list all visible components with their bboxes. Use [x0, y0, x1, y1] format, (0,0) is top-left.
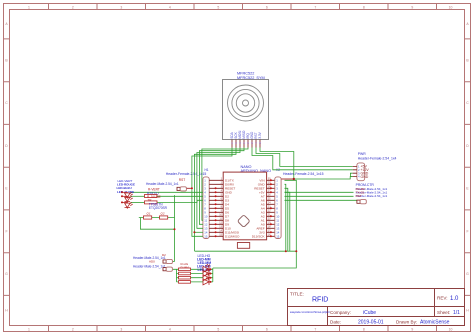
svg-text:8: 8: [363, 327, 365, 331]
title block: [288, 289, 465, 326]
svg-text:6: 6: [266, 327, 268, 331]
svg-text:9: 9: [411, 5, 413, 9]
svg-text:8: 8: [363, 5, 365, 9]
wire RST net: [186, 187, 192, 189]
wire U1 pin1 to H1 row15: [192, 148, 232, 237]
resistor labels bottom: [181, 262, 190, 269]
led labels bottom: [197, 254, 211, 272]
svg-text:1/1: 1/1: [453, 310, 460, 316]
svg-text:1: 1: [28, 5, 30, 9]
led D5: [203, 268, 210, 276]
wire AD0 header to resistor bus: [173, 269, 179, 282]
svg-text:G: G: [5, 272, 8, 276]
wire H2 row3 branch to ground bus: [285, 188, 288, 251]
junction dot loop: [174, 228, 176, 230]
wire ground bus bottom: [195, 250, 296, 252]
svg-text:7: 7: [314, 327, 316, 331]
resistor R3: [179, 268, 191, 271]
wire U1 pin5 to H1 row11: [202, 148, 248, 221]
wire U1 pin8 down to gnd net: [260, 148, 294, 180]
svg-text:ETQ2070SR: ETQ2070SR: [149, 206, 168, 210]
svg-text:10: 10: [449, 327, 453, 331]
junction dots right: [285, 250, 287, 252]
resistor R6: [179, 281, 191, 284]
svg-text:15: 15: [276, 234, 280, 238]
header P3 AD0 Header-Male-2.54_1x1: [133, 264, 172, 271]
wire H2 row1 branch to led bus: [213, 180, 297, 268]
svg-text:7: 7: [314, 5, 316, 9]
wire U1 pin7 to PWR pin1: [256, 148, 353, 167]
svg-text:REV:: REV:: [437, 296, 448, 301]
wire led cathode bus: [209, 268, 213, 282]
led group labels left: [117, 179, 136, 194]
U2 right pin stubs: [267, 180, 275, 236]
svg-text:D12/MISO: D12/MISO: [225, 235, 240, 239]
svg-text:iCube: iCube: [363, 310, 376, 316]
resistor R1 R-VERT: [145, 187, 161, 199]
svg-text:PWR: PWR: [358, 152, 366, 156]
header H2 Header-Female-2.54_1x15: [270, 168, 324, 239]
mcu U2 ARDUINO_NANO: [215, 165, 275, 248]
svg-text:D13/SCK: D13/SCK: [252, 235, 266, 239]
diode D8: [144, 216, 152, 219]
wire U1 pin6 to PWR pin2: [252, 148, 353, 170]
svg-text:RST: RST: [179, 178, 185, 182]
wire led1 row to H1 row4: [131, 191, 203, 193]
svg-text:Header-Female-2.54_1x15: Header-Female-2.54_1x15: [283, 172, 324, 176]
svg-text:AtomicSense: AtomicSense: [420, 320, 450, 326]
header H1 Header-Female-2.54_1x15: [166, 168, 217, 239]
wire photo loop: [139, 195, 175, 261]
led D6: [203, 272, 210, 280]
svg-text:Sheet:: Sheet:: [437, 310, 450, 315]
wire H2 row2 branch to ground bus: [285, 184, 286, 251]
wire PWR gnd bridge: [350, 173, 352, 176]
wire D2 header up: [173, 261, 175, 263]
svg-text:Header-Male-2.54_1x1: Header-Male-2.54_1x1: [146, 182, 179, 186]
svg-text:3.3V: 3.3V: [258, 131, 262, 138]
wire H1 row14 branch: [194, 231, 203, 233]
svg-text:RST: RST: [356, 194, 362, 198]
svg-text:AD0: AD0: [149, 259, 155, 263]
wire H2 row4 to H4 area: [285, 191, 354, 193]
svg-text:4: 4: [169, 5, 171, 9]
svg-text:Q2: Q2: [161, 211, 165, 215]
diode D9: [160, 216, 168, 219]
junction dot gnd net: [293, 178, 295, 180]
wire U1 pin2 to ground bus left: [194, 148, 236, 252]
svg-text:GND: GND: [361, 175, 369, 179]
svg-text:9: 9: [411, 327, 413, 331]
svg-text:Drawn By:: Drawn By:: [396, 320, 417, 325]
resistor R5: [179, 276, 191, 279]
U1 pin stubs: [232, 140, 260, 148]
wire U1 pin3 to H1 row13: [197, 148, 240, 229]
svg-text:6: 6: [266, 5, 268, 9]
wire H2 row4 branch to ground bus: [285, 192, 290, 251]
header H4 PROM-CTR Header-Male-2.54_1x1: [356, 183, 388, 204]
led D4: [203, 264, 210, 272]
svg-text:F: F: [466, 229, 468, 233]
wire led2 row: [131, 195, 145, 197]
led D2v: [125, 196, 133, 203]
wire H2 row6 to H4 pin: [285, 199, 357, 201]
U2 left pin stubs: [215, 180, 223, 236]
svg-text:15: 15: [204, 234, 208, 238]
wire H2 row5 to H4 area: [285, 195, 354, 197]
svg-text:easyeda.com/Atomic5ense-pr0jec: easyeda.com/Atomic5ense-pr0ject: [290, 310, 330, 314]
svg-text:2: 2: [72, 327, 74, 331]
svg-text:4: 4: [169, 327, 171, 331]
U2 left pin numbers: [219, 178, 222, 237]
svg-text:5: 5: [217, 327, 219, 331]
led D3v: [125, 202, 133, 209]
svg-text:RFID: RFID: [312, 297, 328, 304]
svg-text:2: 2: [72, 5, 74, 9]
wire R1 out to H1 row5: [157, 195, 203, 197]
svg-text:Q1: Q1: [147, 211, 151, 215]
U2 right pin numbers: [268, 178, 271, 237]
svg-text:3: 3: [120, 327, 122, 331]
svg-text:TITLE:: TITLE:: [290, 292, 304, 297]
header P1 RST Header-Male-2.54_1x1: [146, 178, 186, 191]
svg-text:Header-Male-2.54_1x1: Header-Male-2.54_1x1: [133, 264, 166, 268]
resistor R2: [145, 198, 168, 210]
svg-text:1.0: 1.0: [450, 296, 459, 302]
svg-text:Company:: Company:: [330, 310, 351, 315]
header P2 D2 Header-Male-2.54_1x1: [133, 253, 172, 264]
wire led3 row: [131, 201, 145, 203]
svg-text:5: 5: [217, 5, 219, 9]
wire R2 out to H1 row6: [157, 200, 203, 202]
svg-text:Header-Female-2.54_1x4: Header-Female-2.54_1x4: [358, 157, 397, 161]
wires bottom resistor to led rows: [191, 269, 203, 282]
antenna module U1 MFRC522: [223, 72, 269, 148]
svg-text:Date:: Date:: [330, 320, 341, 325]
U2 usb connector: [237, 243, 249, 249]
resistor R4: [179, 272, 191, 275]
svg-text:10: 10: [449, 5, 453, 9]
svg-text:1: 1: [28, 327, 30, 331]
svg-text:F: F: [5, 229, 7, 233]
svg-text:G: G: [466, 272, 469, 276]
svg-text:2019-05-01: 2019-05-01: [358, 320, 384, 326]
wire gnd net to PWR pin4: [294, 177, 353, 179]
led D7: [203, 277, 210, 285]
wire gnd net red part: [281, 178, 293, 180]
U2 key diamond: [237, 215, 250, 228]
U2 right pin names: [252, 179, 266, 239]
svg-text:Header-Female-2.54_1x15: Header-Female-2.54_1x15: [166, 172, 207, 176]
wire U1 pin4 to H1 row12: [199, 148, 244, 225]
led D1: [125, 192, 133, 199]
header H3 PWR Header-Female-2.54_1x4: [353, 152, 397, 181]
svg-text:3: 3: [120, 5, 122, 9]
U2 left pin names: [225, 179, 240, 239]
